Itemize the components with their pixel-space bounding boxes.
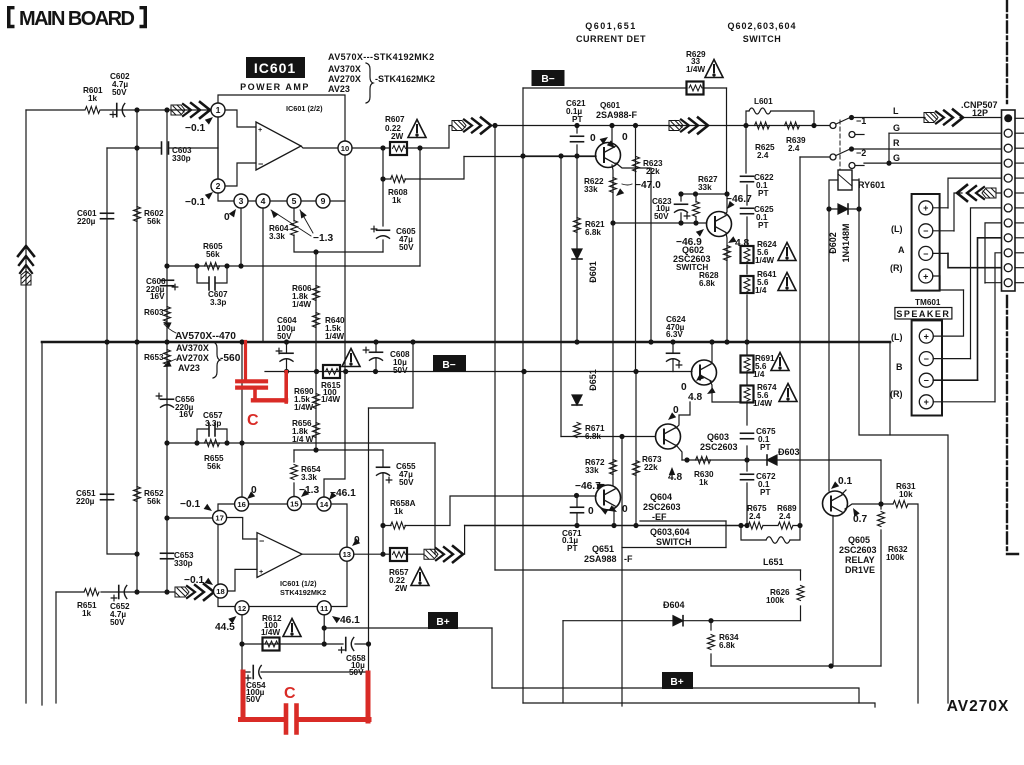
svg-text:50V: 50V (393, 366, 408, 375)
wire pin1 to +input (225, 110, 256, 127)
svg-text:(R): (R) (890, 389, 903, 399)
pin 16 of IC601 (235, 497, 249, 511)
wire C605 branch (382, 179, 384, 226)
svg-text:AV570X--470: AV570X--470 (175, 331, 236, 342)
wire left border x56 (55, 592, 57, 703)
wire x413 jog down (369, 342, 414, 408)
capacitor C622 (741, 175, 754, 177)
svg-text:10: 10 (341, 144, 349, 153)
node D604 x711 (708, 618, 713, 623)
signal arrows output top (452, 118, 491, 134)
arrow -1.3 to pin4 (269, 208, 279, 218)
wire B- drop x523 (522, 88, 524, 703)
pin 2 of IC601 (211, 179, 225, 193)
node output top (492, 123, 497, 128)
leader lines -1.3 (271, 210, 313, 236)
pin 13 of IC601 (340, 547, 354, 561)
svg-text:R603: R603 (144, 308, 164, 317)
wire R654 chain (293, 450, 295, 497)
warning mark R624 (778, 243, 796, 261)
svg-text:Đ603: Đ603 (778, 447, 800, 457)
wire pin18 rail y592 (56, 591, 175, 593)
resistor R651 zigzag (84, 589, 99, 596)
svg-text:MAIN BOARD: MAIN BOARD (19, 8, 135, 30)
connector pin 9 (1004, 234, 1012, 242)
wire x726 stub (725, 521, 727, 548)
wire C655 chain (382, 450, 384, 525)
connector pin 3 stub (1015, 147, 1024, 149)
svg-text:0: 0 (622, 132, 628, 143)
wire y460 rail (682, 459, 881, 461)
node x577-y156 (574, 153, 579, 158)
connector pin 2 stub (1015, 132, 1024, 134)
node input branch (164, 107, 169, 112)
wire rail y525 (465, 525, 741, 527)
svg-text:B−: B− (541, 74, 554, 85)
wire pin11 feed (948, 253, 1001, 267)
resistor R602 zigzag (134, 207, 141, 222)
svg-text:17: 17 (215, 514, 223, 523)
node y194 x681 (678, 191, 683, 196)
node x523-y156 (520, 153, 525, 158)
svg-text:−47.0: −47.0 (635, 180, 661, 191)
resistor R601 zigzag (85, 107, 100, 114)
svg-text:33k: 33k (585, 466, 599, 475)
resistor R632 zigzag (878, 512, 885, 527)
node R608 left (380, 176, 385, 181)
connector pin 1 stub (1015, 117, 1024, 119)
switch contact S1 NO (849, 132, 855, 138)
connector pin 9 stub (1015, 237, 1024, 239)
arrow R653 leader (162, 361, 172, 370)
svg-text:9: 9 (321, 196, 326, 206)
svg-text:12: 12 (238, 604, 246, 613)
diode D601 (572, 249, 582, 259)
wire x747 between (746, 342, 748, 526)
wire y223 base row (613, 222, 706, 224)
svg-text:Q601,651: Q601,651 (585, 21, 637, 31)
wire opamp2 output to pin13 (302, 553, 340, 555)
wire C624 stubs (672, 342, 674, 372)
capacitor C675 (741, 432, 754, 434)
IC601 package outline (218, 95, 345, 201)
wire Q651 base stub (595, 495, 597, 497)
wire pin17 to -input (227, 518, 257, 540)
capacitor C604 symbol (280, 352, 293, 354)
wire x420 link (419, 148, 421, 266)
arrow to pin15 (299, 489, 309, 499)
capacitor C658 (345, 638, 347, 651)
svg-text:50V: 50V (399, 478, 414, 487)
svg-text:1/4W: 1/4W (686, 65, 705, 74)
svg-text:G: G (893, 123, 900, 133)
wire x636 lower (635, 372, 637, 526)
svg-text:IC601 (1/2): IC601 (1/2) (280, 579, 317, 588)
wire pin14 jog from x345 (324, 201, 345, 497)
wire y570 rail (495, 569, 801, 571)
svg-text:16: 16 (237, 500, 245, 509)
wire Q605 down (832, 516, 834, 667)
IC601 label box (246, 57, 305, 78)
node bus x747 (744, 339, 749, 344)
svg-text:0.1: 0.1 (838, 476, 852, 487)
wire C621 chain (576, 126, 578, 157)
svg-text:L601: L601 (754, 97, 773, 106)
resistor R626 zigzag (797, 586, 804, 601)
capacitor C652 (118, 586, 120, 599)
arrow to pin3 (229, 207, 239, 217)
diode D602 (838, 204, 848, 214)
arrow 0.7 Q605 (850, 506, 860, 516)
wire x577 mid chain (576, 156, 578, 342)
svg-text:PT: PT (760, 488, 770, 497)
svg-text:1N4148M: 1N4148M (841, 223, 851, 262)
switch S2 feed (800, 156, 830, 158)
node bus x376 (373, 339, 378, 344)
connector pin 4 stub (1015, 162, 1024, 164)
B+ flag right (662, 672, 693, 689)
wire C604 stub (286, 342, 288, 372)
node S2 common (849, 146, 854, 151)
svg-text:+: + (924, 332, 929, 342)
resistor R603 zigzag (164, 307, 171, 322)
arrow R603 leader (162, 319, 172, 328)
node x577-y125 (574, 123, 579, 128)
capacitor C607 plates (209, 277, 215, 290)
svg-text:2W: 2W (395, 584, 408, 593)
svg-text:+: + (258, 125, 262, 134)
wire Q601 emitter chain (612, 165, 613, 223)
boxed resistor R629 (687, 82, 704, 95)
node x167-y266 (164, 263, 169, 268)
svg-text:3.3k: 3.3k (301, 473, 317, 482)
svg-text:AV23: AV23 (328, 84, 350, 94)
pin 10 of IC601 (338, 141, 352, 155)
svg-text:4: 4 (261, 196, 266, 206)
svg-text:AV270X: AV270X (328, 74, 361, 84)
resistor R652 zigzag (134, 487, 141, 502)
wire pin6 feed (954, 193, 962, 231)
node G jog (886, 161, 891, 166)
wire R631 row (881, 504, 918, 703)
svg-text:56k: 56k (206, 250, 220, 259)
svg-text:220µ: 220µ (76, 497, 95, 506)
svg-text:−: − (924, 376, 929, 386)
arrow 0 Q651 right (608, 505, 618, 515)
wire Q605 collector link (842, 490, 846, 494)
svg-text:A: A (898, 245, 905, 255)
resistor R690 zigzag (313, 394, 320, 409)
svg-text:16V: 16V (179, 410, 194, 419)
svg-text:2SC2603: 2SC2603 (643, 502, 681, 512)
transistor Q605 (823, 491, 848, 516)
switch S1 blade (836, 118, 849, 124)
bus rail y342 bold (42, 341, 890, 344)
svg-text:11: 11 (320, 604, 329, 613)
transistor Q604 upper (692, 360, 717, 385)
resistor R653 zigzag (164, 350, 171, 365)
svg-text:0: 0 (673, 405, 679, 416)
wire R627 chain (695, 194, 697, 223)
resistor R673 zigzag (633, 461, 640, 476)
capacitor C657 plates (209, 423, 215, 436)
arrow 0.1 Q605 (829, 481, 839, 491)
wire D604 row (563, 620, 801, 622)
svg-text:Đ602: Đ602 (828, 232, 838, 254)
wire pin12 down (241, 615, 243, 672)
connector pin 11 (1004, 264, 1012, 272)
svg-text:1/4W: 1/4W (755, 256, 774, 265)
svg-text:44.5: 44.5 (215, 622, 235, 633)
boxed resistor R624 (741, 246, 754, 263)
node y371 x524 (521, 369, 526, 374)
svg-text:2.4: 2.4 (749, 512, 761, 521)
arrow to pin2 (205, 190, 215, 200)
svg-text:Đ651: Đ651 (588, 369, 598, 391)
switch S2 blade (836, 150, 849, 156)
wire B+ rail y628 (324, 627, 492, 629)
connector pin 10 stub (1015, 252, 1024, 254)
resistor R627 zigzag (693, 202, 700, 217)
wire R657 to arrows (407, 553, 424, 555)
red capacitor highlight upper (237, 342, 286, 403)
wire feedback y156 (464, 156, 596, 158)
wire x622 long drop (621, 437, 623, 707)
svg-text:Q601: Q601 (600, 101, 620, 110)
capacitor C606 (161, 279, 174, 281)
wire R to connector (852, 148, 1002, 150)
relay RY601 coil box (838, 170, 852, 190)
signal arrows into pin1 (171, 102, 210, 118)
svg-text:+: + (259, 567, 263, 576)
node y450 x316 (313, 447, 318, 452)
svg-text:AV270X: AV270X (947, 698, 1010, 715)
svg-text:22k: 22k (646, 167, 660, 176)
wire opamp output to pin10 (301, 146, 338, 148)
node x383-y554 (380, 552, 385, 557)
capacitor C672 (741, 473, 754, 475)
svg-text:1/4W: 1/4W (294, 403, 313, 412)
resistor R639 zigzag (785, 122, 800, 129)
connector pin 10 (1004, 249, 1012, 257)
signal arrows into board (957, 185, 996, 201)
terminal block A body (912, 194, 940, 291)
wire y266 (167, 265, 420, 267)
svg-text:50V: 50V (110, 618, 125, 627)
wire pin16 feed from bus (241, 342, 243, 497)
svg-text:C: C (284, 685, 296, 702)
leader line R603 (164, 324, 176, 333)
svg-text:−: − (259, 536, 264, 546)
node x107 to x137 (134, 551, 139, 556)
wire B+ rail y688 (492, 688, 859, 703)
connector pin 4 (1004, 159, 1012, 167)
node pin11 y644 (322, 641, 327, 646)
resistor R608 zigzag (391, 176, 406, 183)
wire B R+ out (933, 401, 995, 403)
wire x383 to output (382, 526, 384, 555)
diode D604 (673, 616, 683, 626)
wire B+ drop x492 (491, 628, 493, 688)
warning mark R629 (705, 60, 723, 78)
svg-text:330p: 330p (172, 154, 191, 163)
red capacitor highlight lower (241, 672, 370, 733)
svg-text:−: − (923, 226, 928, 236)
node y223 x613 (610, 220, 615, 225)
wire D603 to Q605 corner (880, 460, 882, 504)
arrow 4.8 Q604 (705, 387, 715, 397)
svg-text:CURRENT DET: CURRENT DET (576, 34, 646, 44)
capacitor C655 (377, 466, 390, 468)
B+ flag left (428, 612, 458, 629)
resistor R621 zigzag (574, 218, 581, 233)
wire pin12 stub2 (985, 282, 1001, 284)
svg-text:0: 0 (681, 382, 687, 393)
wire x563 drop (562, 621, 564, 703)
node y223 x681 (678, 220, 683, 225)
svg-text:+: + (924, 397, 929, 407)
connector pin 12 stub (1015, 282, 1024, 284)
pin 11 of IC601 (317, 601, 331, 615)
connector pin 12 (1004, 279, 1012, 287)
svg-text:G: G (893, 153, 900, 163)
node y525 x577 (574, 523, 579, 528)
capacitor C603 (162, 142, 169, 154)
svg-text:13: 13 (343, 550, 351, 559)
arrow -46.7 (725, 201, 735, 211)
wire Q605 emitter right (845, 504, 881, 509)
svg-text:0: 0 (590, 133, 596, 144)
svg-text:18: 18 (216, 587, 224, 596)
wire R608 branch (383, 148, 464, 179)
svg-text:1/4W: 1/4W (321, 395, 340, 404)
node y223 x696 (693, 220, 698, 225)
wire rail y525 right (741, 525, 800, 527)
resistor R628 zigzag (724, 246, 731, 261)
warning mark C608 area (342, 349, 360, 367)
node R655 right (224, 440, 229, 445)
svg-text:(R): (R) (890, 263, 903, 273)
brace for AV370X group (366, 63, 373, 103)
svg-text:100k: 100k (886, 553, 905, 562)
wire y194 link (681, 193, 727, 195)
wire A- out (933, 230, 954, 232)
resistor R672 zigzag (610, 460, 617, 475)
node y252 R606 (313, 249, 318, 254)
svg-text:1/4: 1/4 (753, 370, 765, 379)
wire C671 stub (576, 496, 578, 526)
svg-text:Q651: Q651 (592, 544, 614, 554)
signal arrows L line (924, 110, 963, 126)
arrow to pin17 (204, 504, 214, 514)
arrow 4.8 Q602 (726, 236, 736, 246)
svg-text:56k: 56k (147, 497, 161, 506)
title MAIN BOARD (7, 6, 147, 30)
arrow to pin13 (350, 538, 360, 548)
wire y450 (294, 449, 383, 451)
wire y371 rail (265, 371, 692, 373)
boxed resistor R657 (390, 548, 407, 561)
wire x137 branch (136, 110, 138, 592)
wire pin13 to R657 (354, 553, 390, 555)
warning mark R674 (779, 384, 797, 402)
speaker label box (895, 308, 952, 320)
switch contact S2 NO (849, 163, 855, 169)
warning mark R691 (771, 353, 789, 371)
resistor R622 zigzag (610, 178, 617, 193)
svg-text:+: + (923, 203, 928, 213)
node R607 left (380, 145, 385, 150)
transistor Q601 (596, 143, 621, 168)
connector pin 6 (1004, 189, 1012, 197)
B- flag top (532, 70, 565, 86)
svg-text:2SC2603: 2SC2603 (839, 545, 877, 555)
arrow -46.7 Q651 (596, 481, 606, 490)
svg-text:2.4: 2.4 (757, 151, 769, 160)
wire pin18 to +input (228, 569, 258, 591)
resistor R654 zigzag (291, 465, 298, 480)
transistor Q602 (707, 212, 732, 237)
wire D602 row (829, 208, 859, 210)
connector CNP507 body (1002, 110, 1016, 291)
svg-text:33k: 33k (698, 183, 712, 192)
resistor R658A zigzag (391, 522, 406, 529)
wire pin5 down to R604 (293, 208, 295, 221)
svg-text:1/4W: 1/4W (261, 628, 280, 637)
wire pin2 to -input (225, 163, 256, 186)
svg-text:0: 0 (622, 504, 628, 515)
svg-text:56k: 56k (147, 217, 161, 226)
transistor Q603 (656, 424, 681, 449)
wire pin5 feed (948, 178, 1001, 208)
svg-text:6.8k: 6.8k (699, 279, 715, 288)
svg-text:6.8k: 6.8k (585, 432, 601, 441)
svg-text:PT: PT (758, 189, 768, 198)
svg-text:50V: 50V (246, 695, 261, 704)
wire Q601 collector (611, 126, 613, 144)
node x577 base row (574, 493, 579, 498)
boxed resistor R615 (323, 365, 340, 378)
inductor L601 (749, 108, 771, 114)
svg-text:−0.1: −0.1 (185, 197, 205, 208)
svg-text:AV270X: AV270X (176, 353, 209, 363)
wire C623 chain (680, 194, 682, 223)
svg-text:14: 14 (320, 500, 329, 509)
wire Q604 emitter jog (710, 381, 740, 402)
boxed resistor R674 (741, 386, 754, 403)
wire pin8 feed (985, 223, 1001, 283)
A terminal 1 plus (919, 201, 933, 215)
capacitor C607 bracket (197, 266, 227, 283)
node bus x727 (724, 339, 729, 344)
wire pin6 stub (996, 192, 1001, 194)
wire R632 drop (880, 504, 882, 666)
node bus x287 (284, 339, 289, 344)
boxed resistor R607 (390, 142, 407, 155)
svg-text:SPEAKER: SPEAKER (896, 309, 950, 319)
boxed resistor R641 (741, 276, 754, 293)
IC601 second half package outline (218, 504, 347, 607)
svg-text:2SA988-F: 2SA988-F (596, 110, 638, 120)
arrow 4.8 R630 (669, 467, 675, 475)
leader line R653 (165, 359, 176, 366)
node x345-y371 (343, 369, 348, 374)
svg-text:SWITCH: SWITCH (676, 263, 708, 272)
wire left border x42 (41, 342, 43, 705)
arrow Q601 collector (600, 134, 610, 144)
node y371 x376 (373, 369, 378, 374)
svg-text:−0.1: −0.1 (180, 499, 200, 510)
